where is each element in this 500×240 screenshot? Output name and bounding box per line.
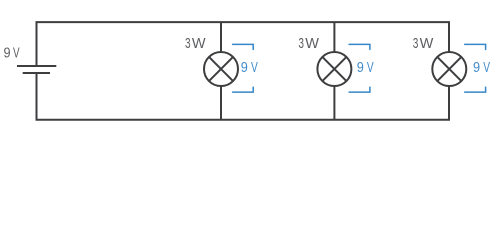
svg-text:9: 9 <box>241 60 248 76</box>
wire: bottom rail (battery - down, across bottom, up to lamp L3) <box>37 73 450 120</box>
wire: lamp L2 top lead <box>333 22 335 52</box>
svg-text:9: 9 <box>473 60 480 76</box>
svg-text:V: V <box>13 46 20 62</box>
svg-text:W: W <box>305 36 319 52</box>
lamp L3 <box>432 52 466 86</box>
voltmeter bracket V3 <box>465 44 486 92</box>
svg-text:9: 9 <box>357 60 364 76</box>
svg-text:V: V <box>367 60 374 76</box>
svg-text:V: V <box>251 60 258 76</box>
label: V3 reading 9 V <box>473 60 490 76</box>
voltmeter bracket V1 <box>233 44 254 92</box>
svg-text:V: V <box>483 60 490 76</box>
svg-text:3: 3 <box>413 36 419 52</box>
svg-text:9: 9 <box>4 46 11 62</box>
wire: lamp L1 bottom lead <box>220 86 222 120</box>
wire: top rail (battery + up, across top, down to lamp L3) <box>37 22 450 66</box>
label: lamp L1 power 3 W <box>185 36 206 52</box>
svg-text:W: W <box>420 36 434 52</box>
voltmeter bracket V2 <box>349 44 370 92</box>
wire: lamp L1 top lead <box>220 22 222 52</box>
lamp L2 <box>317 52 351 86</box>
label: lamp L2 power 3 W <box>298 36 319 52</box>
label: battery voltage 9 V <box>4 46 20 62</box>
wire: lamp L2 bottom lead <box>333 86 335 120</box>
battery B1 (9 V cell) <box>17 66 56 73</box>
label: lamp L3 power 3 W <box>413 36 434 52</box>
svg-text:W: W <box>192 36 206 52</box>
svg-text:3: 3 <box>298 36 304 52</box>
label: V1 reading 9 V <box>241 60 258 76</box>
svg-text:3: 3 <box>185 36 191 52</box>
label: V2 reading 9 V <box>357 60 374 76</box>
lamp L1 <box>204 52 238 86</box>
